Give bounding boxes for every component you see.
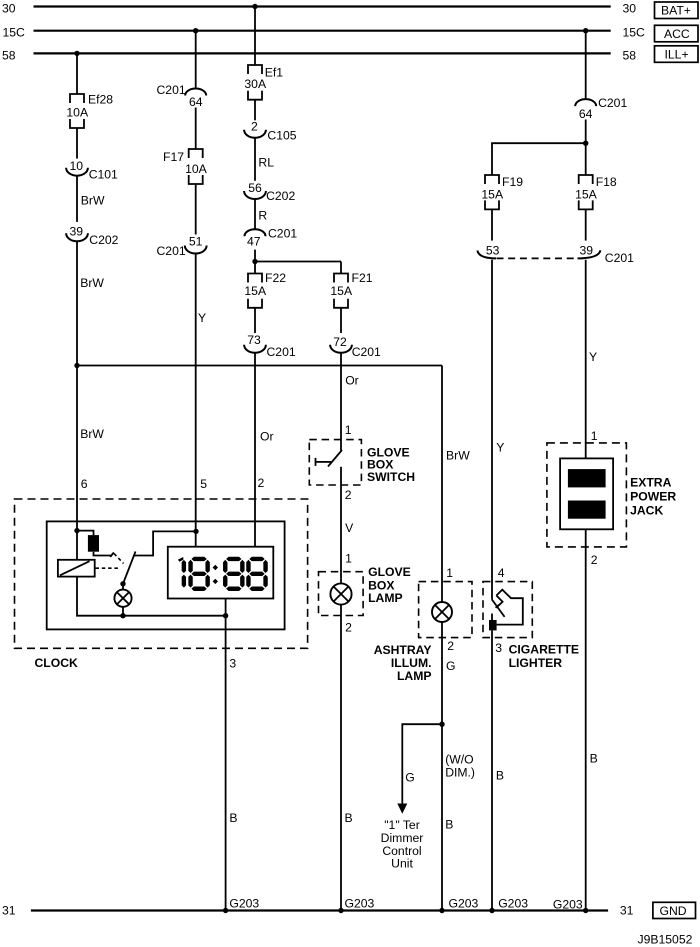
svg-text:J9B15052: J9B15052	[638, 933, 693, 947]
connector pins 53/39 C201	[477, 244, 634, 265]
svg-text:B: B	[496, 769, 504, 783]
svg-text:39: 39	[70, 224, 84, 238]
ashtray lamp bulb	[432, 602, 452, 622]
svg-text:2: 2	[258, 476, 265, 490]
svg-text:LAMP: LAMP	[397, 669, 432, 683]
wire C105 to C202-56, RL	[255, 138, 274, 181]
ACC box	[655, 25, 699, 42]
connector pin 39 C202	[66, 224, 119, 247]
wire junction to G203, B	[442, 724, 453, 910]
node F22/F21 split	[252, 259, 257, 264]
wire BrW branch horizontal	[77, 365, 442, 367]
bus 30 (BAT+)	[2, 2, 636, 16]
wire clock pin3 to G203, B	[226, 616, 238, 911]
svg-text:3: 3	[229, 656, 236, 670]
svg-text:C202: C202	[266, 189, 295, 203]
wire F21 to C201-72	[340, 308, 342, 333]
svg-text:F17: F17	[163, 150, 184, 164]
svg-text:SWITCH: SWITCH	[367, 470, 415, 484]
svg-text:G203: G203	[449, 896, 479, 910]
svg-text:72: 72	[333, 335, 347, 349]
svg-text:1: 1	[446, 566, 453, 580]
extra power jack label	[630, 476, 676, 518]
wire 15C to C201-64 right	[585, 31, 587, 99]
dimmer control unit label	[381, 818, 424, 870]
fuse Ef28 10A	[66, 92, 113, 128]
clock switch arm	[123, 552, 136, 584]
svg-text:B: B	[345, 811, 353, 825]
extra power jack socket	[560, 458, 613, 529]
glove box switch S (dashed box)	[309, 440, 361, 485]
glove box switch label	[367, 445, 415, 484]
svg-text:C201: C201	[605, 251, 634, 265]
wire bulb to bottom rail	[122, 607, 124, 616]
svg-text:B: B	[229, 811, 237, 825]
svg-text:C201: C201	[598, 96, 627, 110]
wire split to F21 branch	[255, 261, 341, 263]
wire F19 to C201-53	[491, 209, 493, 240]
wire C202 to junction, BrW	[77, 241, 104, 365]
svg-text:58: 58	[623, 49, 637, 63]
bus 58 (ILL+)	[2, 49, 636, 63]
fuse F19 15A	[481, 175, 523, 209]
GND box	[653, 902, 696, 918]
svg-text:BrW: BrW	[446, 449, 470, 463]
svg-text:V: V	[345, 521, 354, 535]
node dimmer branch	[439, 722, 444, 727]
svg-text:15A: 15A	[575, 188, 598, 202]
node bulb/rail	[120, 613, 125, 618]
node G203 jack	[553, 897, 589, 913]
node clock pin5 internal	[193, 529, 198, 534]
glove box lamp bulb	[330, 583, 351, 604]
svg-text:15A: 15A	[244, 284, 267, 298]
wire C202-56 to C201-47, R	[255, 199, 267, 229]
svg-text:GND: GND	[660, 904, 687, 918]
connector pin 56 C202	[244, 181, 295, 203]
wire 58 to fuse Ef28	[76, 53, 78, 94]
svg-text:BrW: BrW	[80, 427, 104, 441]
glove box lamp (dashed box)	[319, 572, 364, 616]
svg-text:1: 1	[345, 551, 352, 565]
svg-text:47: 47	[247, 235, 261, 249]
wire F22 to C201-73	[254, 308, 256, 333]
connector pin 72 C201	[330, 335, 381, 359]
svg-text:15A: 15A	[330, 284, 353, 298]
svg-text:C201: C201	[352, 345, 381, 359]
svg-text:2: 2	[345, 621, 352, 635]
svg-text:CIGARETTE: CIGARETTE	[509, 643, 579, 657]
svg-text:Or: Or	[345, 373, 359, 387]
svg-text:15A: 15A	[481, 188, 504, 202]
ashtray illum lamp (dashed box)	[419, 582, 472, 638]
W/O DIM note	[445, 752, 475, 779]
clock crystal (black rect)	[77, 531, 99, 552]
connector pin 51 C201	[157, 235, 207, 259]
svg-text:G203: G203	[345, 896, 375, 910]
svg-text:G203: G203	[498, 896, 528, 910]
wire C101 to C202, BrW	[77, 176, 105, 222]
svg-text:Y: Y	[589, 350, 597, 364]
node switch pivot	[120, 581, 125, 586]
svg-text:POWER: POWER	[630, 490, 676, 504]
wire switch to glove box lamp, V	[341, 467, 354, 584]
wire C201-53 to cigarette lighter, Y	[492, 260, 504, 600]
fuse F22 15A	[244, 271, 286, 308]
node on bus 15C right	[583, 28, 588, 33]
dashed linkage	[96, 554, 124, 569]
wire C201-72 to glove box switch, Or	[341, 353, 359, 451]
svg-text:F19: F19	[502, 175, 523, 189]
cigarette lighter element	[489, 590, 523, 631]
wire lamp to ground G203, B	[341, 605, 353, 911]
wire F17 to C201-51	[195, 184, 197, 235]
svg-text:2: 2	[447, 639, 454, 653]
svg-text:39: 39	[580, 244, 594, 258]
connector pin 47 C201	[245, 227, 298, 249]
BAT+ box	[655, 2, 699, 19]
svg-text:G203: G203	[553, 897, 583, 911]
svg-text:ILLUM.: ILLUM.	[391, 656, 432, 670]
svg-text:G203: G203	[229, 896, 259, 910]
svg-text:51: 51	[189, 235, 203, 249]
wire C201-64R to F19/F18 junction	[585, 120, 587, 144]
clock inner box	[47, 521, 285, 629]
bus 15C (ACC)	[3, 26, 646, 40]
node on bus 58	[74, 51, 79, 56]
clock bottom rail	[77, 577, 226, 616]
svg-text:C105: C105	[267, 129, 296, 143]
relay coil (rect with diagonal)	[58, 560, 95, 577]
wire split to F22	[254, 262, 256, 274]
wire to dimmer control unit, G	[402, 724, 442, 804]
svg-text:73: 73	[247, 333, 261, 347]
svg-text:4: 4	[498, 566, 505, 580]
wire jack to G203, B	[586, 529, 598, 910]
node on bus 15C	[193, 28, 198, 33]
wire C201-51 to clock pin 5, Y	[196, 254, 206, 547]
svg-text:30A: 30A	[244, 77, 267, 91]
svg-text:DIM.): DIM.)	[445, 765, 475, 779]
svg-text:ILL+: ILL+	[665, 48, 689, 62]
svg-text:JACK: JACK	[630, 504, 663, 518]
svg-text:LAMP: LAMP	[368, 591, 403, 605]
wire split to F18	[585, 143, 587, 175]
svg-text:Ef28: Ef28	[88, 92, 113, 106]
svg-text:53: 53	[486, 244, 500, 258]
extra power jack (dashed box)	[547, 443, 627, 547]
svg-text:64: 64	[189, 95, 203, 109]
svg-text:Unit: Unit	[391, 857, 413, 871]
svg-text:2: 2	[591, 553, 598, 567]
svg-text:RL: RL	[258, 156, 274, 170]
svg-text:6: 6	[81, 477, 88, 491]
svg-text:B: B	[590, 751, 598, 765]
svg-text:G: G	[446, 659, 455, 673]
svg-text:F22: F22	[265, 271, 286, 285]
ashtray lamp label	[374, 643, 432, 683]
wire junction to clock pin 6, BrW	[77, 366, 104, 531]
connector pin 73 C201	[244, 333, 296, 359]
svg-text:64: 64	[579, 107, 593, 121]
svg-text:G: G	[405, 771, 414, 785]
svg-text:15C: 15C	[3, 26, 26, 40]
wire lighter to G203, B	[492, 630, 504, 910]
wire C201-39 to extra power jack, Y	[586, 260, 597, 459]
node G203 ashtray	[439, 896, 478, 913]
wire split to F19 branch	[492, 143, 586, 175]
wire Ef1 to C105	[254, 100, 256, 121]
svg-text:Or: Or	[260, 430, 274, 444]
svg-text:ACC: ACC	[664, 27, 690, 41]
svg-text:BrW: BrW	[81, 194, 105, 208]
wire arm to pin5 node	[134, 531, 196, 555]
wire C201-73 to clock pin 2, Or	[255, 353, 274, 547]
svg-text:CLOCK: CLOCK	[35, 656, 79, 670]
wire lamp to dimmer junction, G	[442, 622, 455, 724]
svg-text:30: 30	[2, 2, 16, 16]
svg-text:GLOVE: GLOVE	[368, 565, 411, 579]
fuse F18 15A	[575, 175, 617, 209]
wire C201-64 to F17	[195, 108, 197, 150]
svg-text:Ef1: Ef1	[265, 66, 284, 80]
wire F18 to C201-39	[585, 209, 587, 240]
wire 15C to C201-64	[195, 31, 197, 89]
svg-text:5: 5	[200, 477, 207, 491]
connector pin 10 C101	[66, 159, 118, 182]
svg-text:C201: C201	[157, 244, 186, 258]
glove box lamp label	[368, 565, 411, 605]
svg-text:1: 1	[591, 429, 598, 443]
wire pin6 node to relay coil	[76, 531, 78, 560]
svg-text:F21: F21	[352, 271, 373, 285]
node on bus 30	[252, 4, 257, 9]
svg-text:1: 1	[345, 423, 352, 437]
svg-text:LIGHTER: LIGHTER	[509, 656, 563, 670]
ILL+ box	[655, 46, 699, 63]
svg-text:15C: 15C	[623, 26, 646, 40]
svg-text:ASHTRAY: ASHTRAY	[374, 643, 432, 657]
svg-text:3: 3	[495, 641, 502, 655]
node clock pin6 internal	[74, 528, 79, 533]
svg-text:BrW: BrW	[80, 276, 104, 290]
svg-text:10A: 10A	[185, 162, 208, 176]
LCD colon	[213, 565, 218, 584]
svg-text:C201: C201	[157, 83, 186, 97]
glove box switch contacts	[316, 450, 343, 467]
cigarette lighter (dashed box)	[483, 582, 532, 638]
node G203 glove lamp	[338, 896, 374, 913]
wire pivot to clock lamp	[122, 584, 124, 590]
arrow to dimmer control unit	[397, 804, 407, 814]
node BrW branch junction	[74, 363, 79, 368]
node rail/pin3	[223, 613, 228, 618]
connector pin 64 C201 left	[157, 83, 207, 109]
svg-text:Y: Y	[496, 441, 504, 455]
svg-text:2: 2	[251, 119, 258, 133]
connector pin 64 C201 right	[575, 96, 627, 121]
fuse F17 10A	[163, 149, 208, 184]
node F19/F18 split	[583, 141, 588, 146]
wire C201-47 to F22/F21 junction	[254, 250, 256, 262]
wire Ef28 to C101	[76, 128, 78, 159]
bus 31 (GND)	[2, 904, 634, 918]
svg-text:2: 2	[345, 488, 352, 502]
svg-text:F18: F18	[596, 175, 617, 189]
connector pin 2 C105	[244, 119, 297, 142]
svg-text:C201: C201	[268, 227, 297, 241]
fixed contact from crystal	[94, 552, 114, 557]
svg-text:Y: Y	[198, 311, 206, 325]
svg-text:30: 30	[623, 2, 637, 16]
svg-text:10: 10	[70, 159, 84, 173]
LCD display box	[168, 547, 273, 599]
svg-text:R: R	[258, 208, 267, 222]
svg-text:C202: C202	[89, 233, 118, 247]
clock illumination bulb	[114, 590, 131, 607]
fuse Ef1 30A	[244, 65, 283, 100]
node G203 lighter	[489, 896, 528, 913]
svg-text:EXTRA: EXTRA	[630, 476, 672, 490]
svg-text:56: 56	[248, 181, 262, 195]
wire LCD bottom to rail	[225, 599, 227, 616]
svg-text:31: 31	[620, 904, 634, 918]
svg-text:(W/O: (W/O	[445, 752, 473, 766]
svg-text:B: B	[445, 818, 453, 832]
wire branch down to ashtray lamp, BrW	[442, 366, 470, 603]
svg-text:58: 58	[2, 49, 16, 63]
cigarette lighter label	[509, 643, 579, 671]
wire 30 to fuse Ef1	[254, 7, 256, 66]
wire split to F21	[340, 262, 342, 274]
svg-text:BAT+: BAT+	[661, 4, 691, 18]
svg-text:31: 31	[2, 904, 16, 918]
svg-text:C201: C201	[267, 345, 296, 359]
fuse F21 15A	[330, 271, 372, 308]
clock outer dashed box	[15, 499, 308, 648]
svg-text:C101: C101	[89, 167, 118, 181]
node G203 clock	[223, 896, 260, 913]
svg-text:10A: 10A	[66, 105, 89, 119]
